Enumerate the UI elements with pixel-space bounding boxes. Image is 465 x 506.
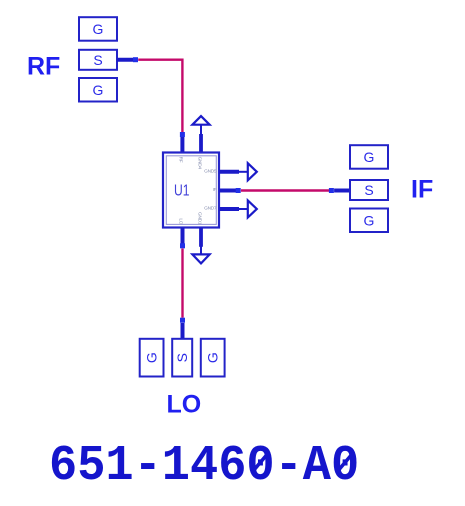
wire GND7 to power symbol: [239, 208, 247, 210]
power symbol right-triangle (GND7): [248, 200, 257, 217]
junction square at U1 IF pin: [236, 188, 241, 193]
pin U1 IF (right-middle): [219, 189, 236, 193]
svg-text:GND7: GND7: [204, 206, 217, 212]
svg-text:RF: RF: [178, 157, 184, 163]
pin stub to LO S pad: [181, 323, 185, 339]
pin U1 RF (top-left): [180, 137, 184, 153]
wire GND5 to power symbol: [239, 171, 247, 173]
svg-text:LO: LO: [178, 218, 184, 224]
power symbol down-triangle (GND1): [192, 254, 209, 263]
wire IF net: [241, 189, 329, 191]
junction square at LO pad: [180, 318, 185, 323]
pin U1 GND4 (top-right): [199, 134, 203, 153]
pin stub to IF S pad: [334, 189, 350, 193]
junction square at RF pad: [133, 57, 138, 62]
wire LO net: [181, 249, 183, 318]
pin U1 GND7 (right-bottom): [219, 207, 239, 211]
slash of zero in A0: [337, 453, 353, 472]
pin U1 LO (bottom-left): [181, 228, 185, 244]
svg-text:GND4: GND4: [197, 157, 203, 170]
svg-text:GND5: GND5: [204, 168, 217, 174]
svg-text:RF: RF: [27, 53, 60, 81]
port LO pad G (left, rotated): [140, 339, 164, 377]
junction square at U1 RF pin: [180, 132, 185, 137]
svg-text:G: G: [364, 149, 375, 165]
svg-text:S: S: [93, 52, 102, 68]
power symbol up-triangle (GND4): [192, 116, 209, 125]
port LO pad G (right, rotated): [201, 339, 225, 377]
port RF pad G (bottom): [79, 78, 117, 102]
component U1 body: [163, 153, 219, 228]
svg-text:651-1460-A0: 651-1460-A0: [49, 438, 359, 495]
svg-text:G: G: [364, 212, 375, 228]
port IF pad G (top): [350, 145, 388, 169]
junction square at IF pad: [329, 188, 334, 193]
wire GND4 to power symbol: [200, 125, 202, 134]
svg-text:G: G: [93, 82, 104, 98]
wire GND1 to power symbol: [200, 247, 202, 255]
svg-text:G: G: [144, 352, 160, 363]
port IF pad S: [350, 180, 388, 200]
pin U1 GND5 (right-top): [219, 170, 239, 174]
power symbol right-triangle (GND5): [248, 163, 257, 180]
slash of zero in 1460: [253, 453, 269, 472]
svg-text:IF: IF: [213, 187, 217, 193]
pin stub from RF S pad: [117, 58, 134, 62]
svg-text:GND1: GND1: [197, 212, 203, 225]
port RF pad G (top): [79, 17, 117, 41]
port IF pad G (bottom): [350, 209, 388, 233]
svg-text:S: S: [364, 182, 373, 198]
svg-text:U1: U1: [174, 182, 190, 199]
svg-text:G: G: [205, 352, 221, 363]
svg-text:G: G: [93, 21, 104, 37]
port RF pad S: [79, 50, 117, 70]
wire RF net (horizontal + vertical): [138, 60, 182, 133]
svg-text:LO: LO: [167, 391, 202, 419]
pin U1 GND1 (bottom-right): [199, 228, 203, 247]
junction square at U1 LO pin: [180, 243, 185, 248]
port LO pad S (rotated): [172, 339, 192, 377]
svg-text:IF: IF: [411, 176, 433, 204]
svg-text:S: S: [174, 353, 190, 362]
